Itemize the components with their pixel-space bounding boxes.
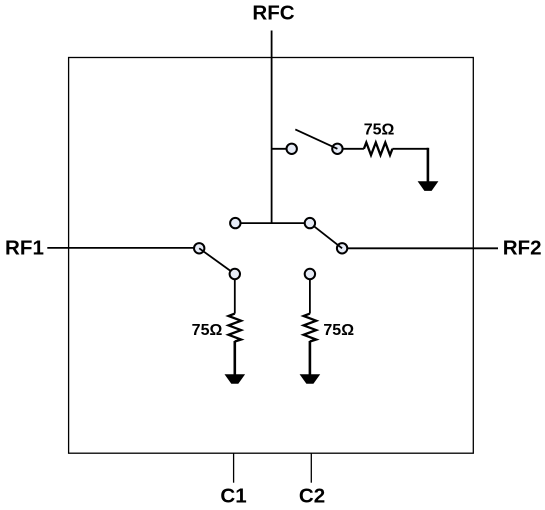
svg-text:C2: C2 [299,485,325,506]
svg-text:RF2: RF2 [503,237,542,260]
svg-text:RFC: RFC [252,2,294,25]
svg-text:RF1: RF1 [5,237,44,260]
svg-text:C1: C1 [220,485,246,506]
svg-text:75Ω: 75Ω [192,322,223,339]
svg-text:75Ω: 75Ω [364,122,395,139]
svg-text:75Ω: 75Ω [323,322,354,339]
